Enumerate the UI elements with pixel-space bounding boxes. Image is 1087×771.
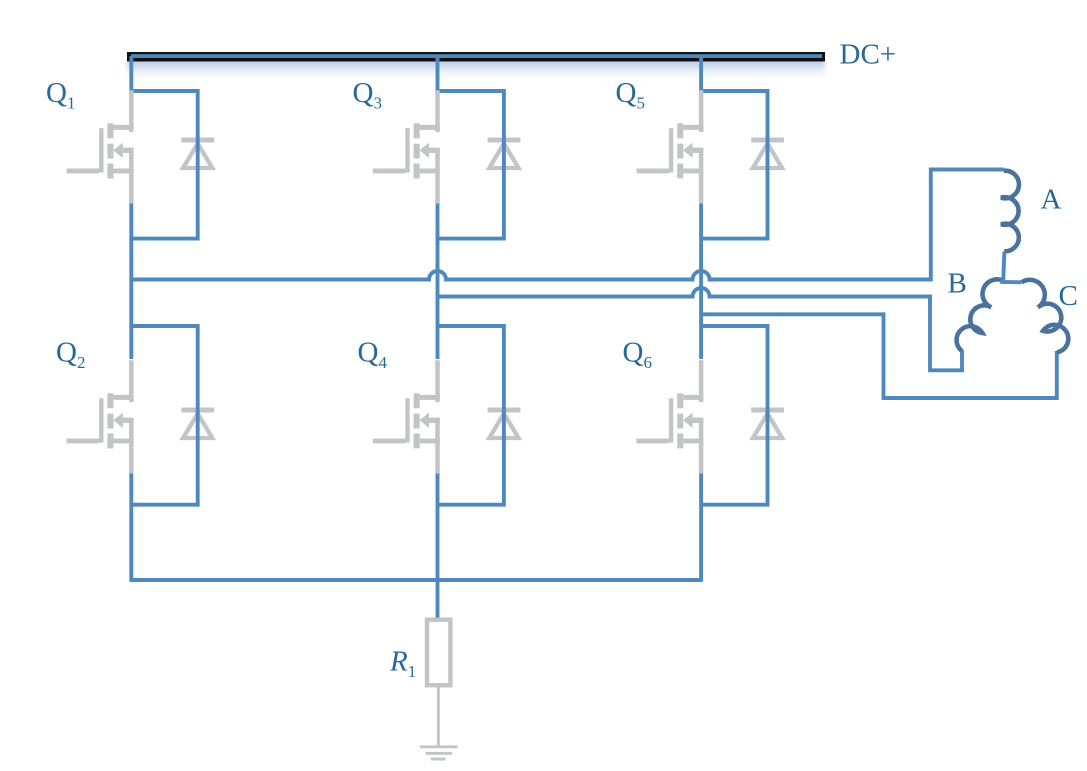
inductor C (phase C winding) <box>1022 280 1069 353</box>
wire Q1 source drop <box>129 204 133 360</box>
diode D4 <box>488 408 521 439</box>
wire Q4 source drop to resistor <box>436 473 440 620</box>
node C rail <box>701 314 1057 398</box>
wire Q3 drain stub <box>436 56 440 91</box>
wire Q5 source drop <box>699 204 703 360</box>
transistor Q6 <box>636 360 703 473</box>
inductor A (phase A winding) <box>1001 171 1019 252</box>
transistor Q4 <box>373 360 440 473</box>
DC+ bus bar <box>127 52 825 62</box>
inductor B (phase B winding) <box>957 279 1004 351</box>
diode D3 <box>488 138 521 169</box>
diode D5 <box>751 138 784 169</box>
ground <box>420 745 458 760</box>
diode D6 <box>751 408 784 439</box>
wire Q1 drain stub <box>129 56 133 91</box>
transistor Q3 <box>373 90 440 203</box>
svg-text:Q6: Q6 <box>623 337 652 373</box>
wire Q2 source drop <box>129 473 133 582</box>
wire coil A tail <box>1003 252 1004 282</box>
wire star point link <box>1000 280 1021 284</box>
transistor Q1 <box>67 90 134 203</box>
svg-text:Q2: Q2 <box>56 337 85 373</box>
wire Q6 source drop <box>699 473 703 582</box>
transistor Q2 <box>67 360 134 473</box>
bus glow <box>127 60 825 82</box>
svg-text:R1: R1 <box>389 646 416 682</box>
resistor R1 <box>427 620 450 686</box>
svg-text:Q5: Q5 <box>616 77 645 113</box>
svg-text:Q1: Q1 <box>46 77 75 113</box>
svg-text:A: A <box>1041 183 1062 215</box>
node A rail with hops <box>131 170 1003 280</box>
wire R1 to ground <box>437 684 440 747</box>
diode D1 <box>181 138 214 169</box>
wire Q2 cell loop <box>131 326 197 505</box>
wire Q3 cell loop <box>438 91 504 239</box>
transistor Q5 <box>636 90 703 203</box>
diode D2 <box>181 408 214 439</box>
node B rail with hop <box>438 288 963 370</box>
wire Q5 drain stub <box>699 56 703 91</box>
svg-text:DC+: DC+ <box>840 38 897 70</box>
wire Q1 cell loop <box>131 91 197 239</box>
svg-text:C: C <box>1059 280 1078 312</box>
wire Q4 cell loop <box>438 326 504 505</box>
svg-text:B: B <box>948 268 967 300</box>
wire Q5 cell loop <box>701 91 767 239</box>
svg-text:Q4: Q4 <box>358 337 388 373</box>
svg-text:Q3: Q3 <box>353 77 382 113</box>
wire Q6 cell loop <box>701 326 767 505</box>
wire bottom rail <box>131 578 701 582</box>
wire Q3 source drop <box>436 204 440 360</box>
